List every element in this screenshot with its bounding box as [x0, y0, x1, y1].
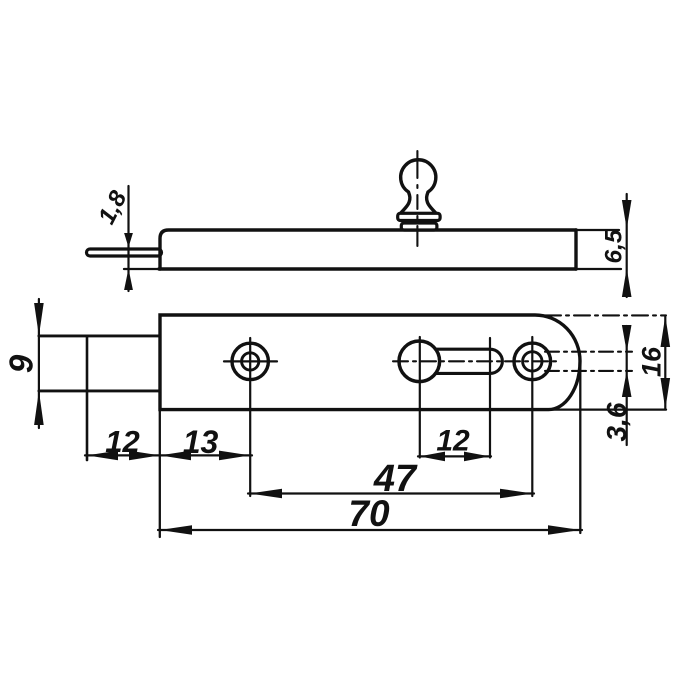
side view bar right end: [574, 230, 577, 269]
knob ball and neck: [400, 160, 436, 214]
slot lower edge: [436, 372, 491, 375]
arrow 1,8 upper: [124, 233, 133, 247]
svg-text:13: 13: [183, 424, 219, 460]
arrow 47 left: [250, 489, 282, 499]
extension line bar bottom right: [576, 268, 621, 270]
dimension line 16: [664, 316, 666, 409]
side view bar bottom edge: [159, 267, 576, 270]
arrow 3,6 lower: [622, 371, 632, 397]
dimension line 12 13: [85, 454, 252, 456]
knob centerline: [416, 151, 418, 246]
arrow 47 right: [500, 489, 533, 499]
slot right cap: [490, 349, 502, 373]
slot upper edge: [436, 348, 491, 351]
dimension line 12 slot: [418, 455, 491, 457]
arrow 13 left: [160, 451, 191, 461]
knob collar upper disc: [398, 213, 440, 220]
arrow 12 left: [87, 451, 118, 461]
extension line bar top right: [576, 229, 619, 231]
arrow 9 lower: [34, 391, 44, 425]
svg-text:3,6: 3,6: [601, 402, 632, 441]
knob collar lower disc: [401, 223, 437, 230]
arrow 12 slot left: [419, 452, 445, 462]
right screw hole outer circle: [514, 343, 551, 380]
dimension line 3,6: [626, 326, 628, 445]
arrow 3,6 upper: [622, 325, 632, 352]
arrow 70 left: [160, 525, 192, 535]
svg-text:9: 9: [3, 354, 40, 373]
dimension line 9: [38, 299, 40, 428]
right screw hole inner circle: [523, 352, 542, 371]
extension line small hole tangent top: [545, 351, 632, 353]
dimension line 47: [248, 492, 534, 494]
arrow 13 right: [219, 451, 250, 461]
dimension line 1,8: [127, 186, 129, 291]
extension line plate top right (dash-dot): [545, 314, 666, 316]
svg-text:1,8: 1,8: [93, 186, 132, 229]
right hole vertical centerline / extension: [531, 337, 533, 496]
extension line plate right down: [579, 360, 581, 533]
left screw hole outer circle: [232, 343, 268, 379]
extension line bar bottom left: [124, 268, 159, 270]
left hole vertical centerline / extension: [249, 338, 251, 496]
plan view bolt bar bottom edge (with 9-dim extension): [39, 389, 160, 392]
dimension line 70: [158, 529, 582, 531]
extension line plate bottom right: [549, 408, 666, 410]
svg-text:12: 12: [105, 424, 139, 459]
left screw hole inner circle: [242, 353, 259, 370]
extension line small hole tangent bottom: [545, 370, 632, 372]
arrow 70 right: [548, 525, 580, 535]
bolt pin (side view): [87, 249, 162, 256]
slot end vertical centerline / extension: [489, 338, 491, 458]
svg-text:70: 70: [348, 493, 390, 534]
svg-text:12: 12: [436, 425, 470, 458]
arrow 1,8 lower: [124, 269, 133, 290]
arrow 6,5 upper: [622, 200, 632, 229]
arrow 12 slot right: [464, 452, 490, 462]
arrow 16 lower: [661, 378, 671, 409]
arrow 9 upper: [34, 303, 44, 336]
arrow 12 right: [129, 451, 160, 461]
plan view bolt bar left end + extension down: [86, 336, 89, 460]
side view bolt bar outline: [160, 230, 576, 269]
slot horizontal centerline: [393, 360, 561, 362]
slot big circle: [399, 341, 440, 382]
plan view plate outline: [160, 315, 580, 410]
arrow 16 upper: [661, 316, 671, 347]
plan view bolt bar top edge (with 9-dim extension): [39, 334, 160, 337]
extension line plate left edge down: [159, 410, 161, 537]
dimension line 6,5: [626, 194, 628, 297]
svg-text:6,5: 6,5: [601, 229, 628, 263]
arrow 6,5 lower: [622, 268, 632, 297]
left hole horizontal centerline: [224, 360, 277, 362]
slot circle vertical centerline / extension: [419, 337, 421, 458]
svg-text:16: 16: [637, 346, 667, 377]
